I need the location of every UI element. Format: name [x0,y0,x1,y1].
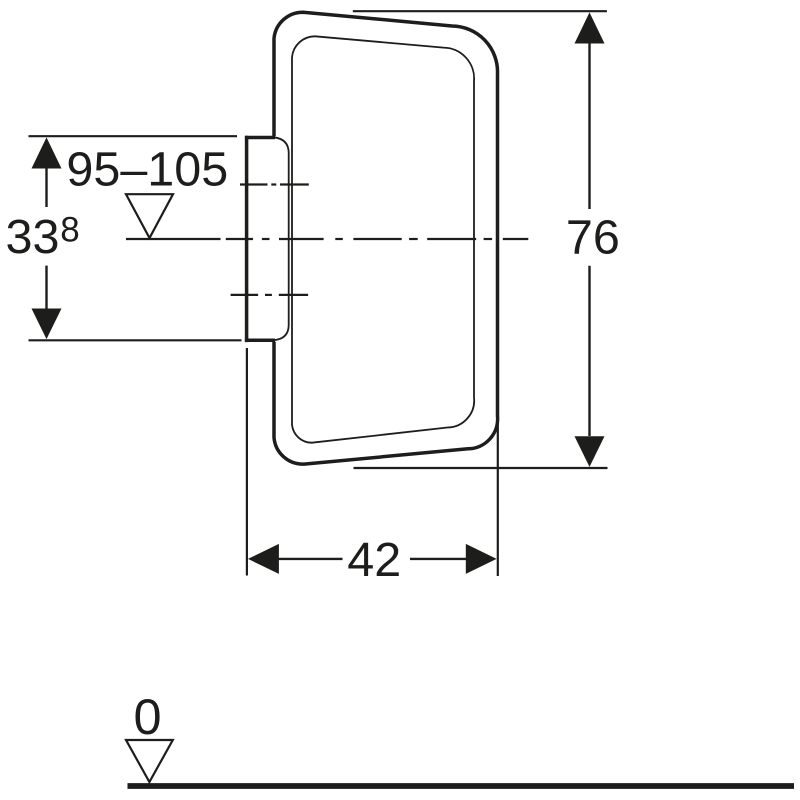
mounting plate bottom edge [245,339,275,343]
upper hole centerline y=184.5 [240,183,309,185]
dimension line 33 vertical [45,168,47,309]
arrow right (42) [466,544,497,574]
svg-text:0: 0 [133,688,161,745]
floor line [128,783,795,789]
extension line bottom of plate (33 dim) [29,339,242,341]
main centerline y=239 dash-dot [126,238,528,240]
mounting plate top edge [245,136,275,140]
arrow up (76) [575,12,605,43]
extension line bottom (76 dim) [354,467,608,469]
svg-text:8: 8 [60,210,79,249]
outer contour of body [274,12,498,464]
arrow down (76) [575,436,605,467]
dimension line 76 vertical [588,43,590,436]
arrow down (33) [32,309,62,340]
dimension line 42 horizontal [278,558,466,560]
arrow up (33) [32,137,62,168]
extension line top of plate (33 dim) [29,135,238,137]
svg-text:33: 33 [6,210,60,264]
extension line left (42 dim) [246,348,248,576]
svg-text:76: 76 [566,211,620,265]
arrow left (42) [248,544,279,574]
extension line top (76 dim) [353,10,607,12]
floor datum triangle [126,740,173,782]
datum triangle (95-105) [126,194,173,238]
mounting plate left edge [245,136,249,342]
mounting plate right rounded profile [273,137,289,340]
inner contour of body [292,36,474,442]
lower hole centerline y=294.9 [231,294,309,296]
svg-text:42: 42 [347,533,401,587]
extension line right (42 dim) [497,420,499,576]
svg-text:95–105: 95–105 [66,142,228,196]
